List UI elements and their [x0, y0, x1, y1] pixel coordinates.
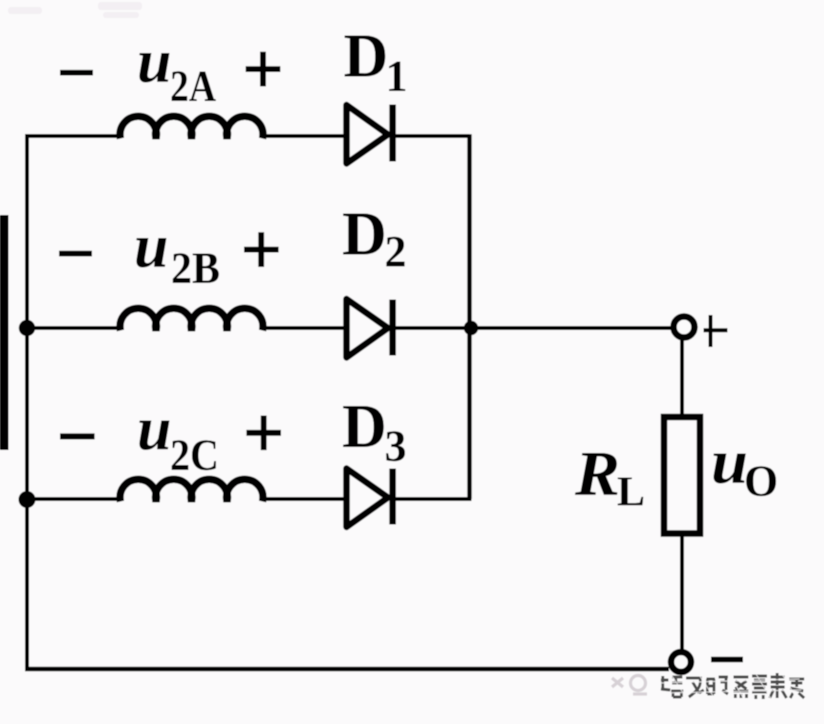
minus sign winding A	[60, 70, 93, 76]
svg-text:2: 2	[385, 227, 407, 276]
svg-text:u: u	[137, 396, 171, 464]
plus sign winding A	[246, 52, 281, 87]
svg-text:L: L	[617, 470, 645, 516]
diode D3 triangle	[347, 469, 389, 528]
diode D1 triangle	[347, 105, 389, 164]
diode D1 cathode bar	[389, 105, 396, 162]
wire row C left segment	[27, 497, 118, 501]
wire row A mid segment	[265, 134, 346, 138]
minus sign winding C	[60, 433, 95, 439]
watermark text 路飞的恶魔果实 (drawn strokes)	[661, 673, 804, 699]
winding u2C (inductor)	[120, 479, 263, 501]
minus sign at bottom terminal	[711, 657, 743, 663]
wire bottom return	[25, 667, 669, 671]
plus sign at output terminal	[704, 315, 728, 347]
plus sign winding B	[244, 232, 279, 267]
svg-text:2A: 2A	[170, 62, 216, 111]
diode D2 triangle	[347, 299, 389, 358]
diode D2 cathode bar	[389, 300, 396, 356]
svg-text:u: u	[137, 28, 171, 96]
plus sign winding C	[246, 416, 281, 451]
wire left vertical bus	[25, 134, 29, 671]
node B-right junction dot	[464, 321, 478, 335]
svg-text:2B: 2B	[171, 243, 220, 292]
node C-left junction dot	[19, 491, 36, 508]
wire row B left segment	[27, 326, 118, 330]
winding u2B (inductor)	[120, 308, 263, 330]
svg-text:u: u	[711, 426, 748, 497]
faint top smudges	[8, 2, 142, 18]
output terminal + (open circle)	[674, 317, 695, 338]
svg-text:u: u	[134, 213, 168, 281]
node B-left junction dot	[19, 320, 35, 336]
winding u2A (inductor)	[120, 116, 263, 138]
wire row A left segment	[25, 134, 118, 138]
wire row B output segment to terminal	[392, 326, 671, 330]
svg-text:3: 3	[385, 421, 407, 470]
wire row C mid segment	[265, 497, 346, 501]
wire resistor bottom to bottom terminal	[680, 535, 684, 651]
transformer core bar	[0, 215, 9, 450]
resistor RL body	[664, 417, 700, 534]
svg-text:D: D	[342, 393, 387, 461]
svg-text:1: 1	[386, 52, 408, 101]
diode D3 cathode bar	[389, 469, 396, 525]
wire row B mid segment	[265, 326, 346, 330]
wire row C right segment	[392, 497, 472, 501]
wire terminal to resistor top	[680, 340, 684, 416]
watermark icon (faint)	[612, 676, 647, 695]
svg-text:D: D	[342, 201, 387, 269]
svg-text:D: D	[344, 22, 389, 90]
svg-text:2C: 2C	[170, 431, 219, 480]
bottom terminal - (open circle)	[671, 652, 691, 672]
svg-text:R: R	[574, 438, 620, 509]
svg-text:O: O	[744, 457, 778, 506]
wire right vertical branch	[467, 134, 471, 499]
wire row A right segment	[392, 134, 470, 138]
watermark erosion streaks	[660, 672, 801, 700]
minus sign winding B	[59, 251, 92, 257]
